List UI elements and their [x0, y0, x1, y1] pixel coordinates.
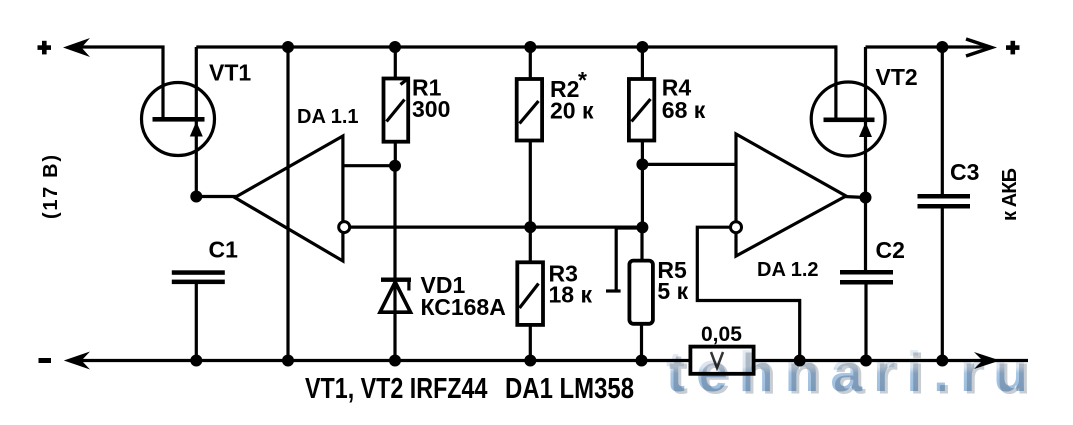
wire top rail right — [866, 45, 990, 48]
svg-text:5 к: 5 к — [657, 278, 688, 304]
transistor VT2 — [811, 82, 885, 156]
svg-text:DA 1.2: DA 1.2 — [757, 259, 819, 281]
svg-text:C3: C3 — [950, 159, 979, 185]
svg-text:18 к: 18 к — [549, 282, 593, 308]
node DA1.2 out / VT2 source — [860, 192, 872, 204]
svg-text:300: 300 — [412, 96, 450, 122]
node VT1 source / DA1.1 out / C1 — [190, 191, 202, 203]
node bottom rail / R5 — [636, 355, 648, 367]
plus terminal top-right — [1006, 41, 1020, 55]
wire VT2 source lead — [864, 47, 867, 198]
wire top rail middle — [196, 45, 836, 48]
node R4 bottom / DA1.2 +in — [636, 158, 648, 170]
transistor VT1 — [142, 83, 215, 156]
wire DA1.2 inverting input to shunt — [697, 227, 799, 360]
svg-text:VT2: VT2 — [876, 64, 918, 90]
wire DA1.1 inverting input — [350, 226, 643, 229]
node bottom rail / C3 — [936, 355, 948, 367]
bottom rail right arrow — [974, 352, 1000, 369]
node bottom rail / C2 — [860, 355, 872, 367]
wire DA1.1 non-inverting input — [343, 164, 395, 167]
svg-text:tehnari.ru: tehnari.ru — [666, 340, 1039, 404]
top rail left arrow — [63, 38, 90, 57]
capacitor C2 — [840, 270, 893, 361]
svg-text:C2: C2 — [876, 237, 905, 263]
wire bottom rail left — [76, 359, 690, 362]
zener diode VD1 — [380, 278, 411, 313]
capacitor C3 — [918, 194, 971, 361]
wire C3 top — [941, 47, 944, 194]
wire top rail left + VT1 drain lead — [76, 47, 163, 119]
node top rail / R2 — [524, 41, 536, 53]
wire DA1.2 output — [844, 197, 866, 198]
svg-text:*: * — [578, 67, 587, 93]
node top rail / C3 — [936, 41, 948, 53]
shunt V mark — [711, 352, 723, 368]
svg-text:68 к: 68 к — [662, 97, 706, 123]
wire DA1.2 non-inverting input — [642, 163, 736, 166]
svg-text:(17 В): (17 В) — [40, 155, 62, 219]
svg-text:КС168А: КС168А — [421, 294, 506, 320]
node top rail / R1 — [389, 41, 401, 53]
svg-text:20 к: 20 к — [550, 97, 594, 123]
wire VT1 source lead — [195, 47, 198, 197]
node R2/R3 divider — [524, 221, 536, 233]
DA1.1 inverting bubble — [339, 222, 350, 233]
capacitor C1 — [172, 270, 225, 360]
node top rail / R4 — [636, 41, 648, 53]
minus terminal bottom-left — [39, 358, 52, 363]
resistor R3 — [517, 227, 543, 360]
svg-text:VT1, VT2 IRFZ44: VT1, VT2 IRFZ44 — [305, 373, 487, 405]
svg-text:C1: C1 — [209, 237, 239, 263]
node bottom rail / VD1 — [389, 355, 401, 367]
wire top rail VT2 drain lead — [834, 47, 836, 120]
wire R1 bottom to VD1 to ground — [393, 166, 396, 361]
DA1.2 inverting bubble — [731, 222, 742, 233]
svg-text:к АКБ: к АКБ — [999, 168, 1021, 221]
top rail right open arrow — [966, 39, 992, 56]
shunt resistor 0,05 — [690, 347, 753, 374]
op-amp U1 DA1.1 — [235, 136, 343, 261]
svg-text:DA 1.1: DA 1.1 — [297, 106, 359, 128]
wire DA1.1 output — [196, 195, 236, 198]
wire R4 to R5 — [641, 164, 644, 227]
node R1 bottom / DA1.1 +in — [389, 160, 401, 172]
node bottom rail / R3 — [524, 355, 536, 367]
node bottom rail / C1 — [190, 355, 202, 367]
wire VT2 to C2 — [864, 198, 867, 271]
resistor R4 — [629, 47, 654, 164]
node R4/R5 divider — [636, 221, 648, 233]
svg-text:VT1: VT1 — [209, 60, 251, 86]
op-amp U2 DA1.2 — [736, 134, 846, 256]
op-amp U1 DA1.1 supply wire — [286, 47, 289, 361]
wire bottom rail right — [754, 359, 1028, 362]
resistor R2 — [517, 47, 542, 227]
bottom rail left arrow — [64, 352, 90, 370]
svg-text:DA1 LM358: DA1 LM358 — [505, 373, 634, 405]
resistor R1 — [384, 47, 409, 166]
watermark tehnari.ru — [666, 340, 1042, 407]
node bottom rail / DA1.1 supply — [282, 355, 294, 367]
plus terminal top-left — [38, 41, 52, 55]
node top rail / DA1.1 supply — [282, 41, 294, 53]
resistor R5 — [606, 228, 653, 361]
node bottom rail / DA1.2 inv — [794, 355, 806, 367]
